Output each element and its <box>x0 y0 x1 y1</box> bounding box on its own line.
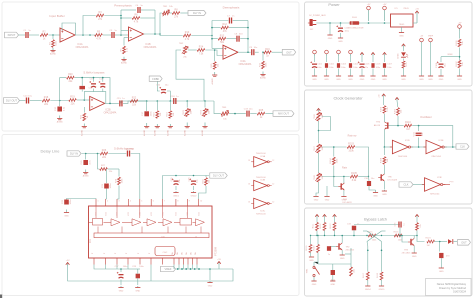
wire r26 to c24 <box>108 153 126 155</box>
svg-text:2.2k: 2.2k <box>127 47 129 52</box>
svg-text:R119: R119 <box>306 245 308 251</box>
capacitor C35x <box>398 222 401 228</box>
wire port to r <box>82 153 100 155</box>
svg-text:TM6: TM6 <box>314 114 316 119</box>
label TM5 <box>222 107 228 120</box>
wire TM2 to R14 <box>188 49 197 51</box>
wire wet return <box>176 50 204 101</box>
wire c21 pin <box>105 189 108 200</box>
label pendant +5V <box>420 36 424 38</box>
resistor R21v <box>81 113 89 121</box>
svg-text:1k: 1k <box>87 115 89 118</box>
wire c109 gnd <box>440 69 442 76</box>
svg-text:VCO: VCO <box>162 212 164 216</box>
junction vref <box>459 56 461 58</box>
svg-text:100n: 100n <box>70 199 72 205</box>
capacitor C31 <box>414 132 425 137</box>
svg-text:+5V: +5V <box>217 259 221 261</box>
svg-text:50k: 50k <box>322 175 324 179</box>
svg-text:10u: 10u <box>28 95 32 97</box>
resistor R22i <box>130 97 138 107</box>
wire C104 top <box>350 56 352 62</box>
svg-text:10k: 10k <box>462 61 464 65</box>
svg-text:VREF: VREF <box>447 54 453 56</box>
junction osc b <box>418 125 420 127</box>
wire th6 emitter gnd <box>343 190 345 196</box>
svg-text:4.7n: 4.7n <box>89 160 91 165</box>
junction clk r104 <box>333 146 335 148</box>
svg-text:AGND: AGND <box>201 130 204 137</box>
svg-text:GND: GND <box>348 79 353 81</box>
junction latch x1 <box>366 235 367 236</box>
label Oscillator <box>420 115 432 119</box>
wire r29 bot <box>199 186 206 199</box>
svg-text:P: P <box>115 252 117 254</box>
svg-text:Preemphasis: Preemphasis <box>114 4 132 8</box>
capacitor C15 <box>117 98 126 106</box>
svg-text:AGND: AGND <box>183 130 186 137</box>
svg-text:102: 102 <box>422 132 424 136</box>
svg-text:R2: R2 <box>42 31 46 34</box>
svg-text:R28: R28 <box>115 178 117 183</box>
wire c31 lead <box>418 126 420 131</box>
ground GND below C27 <box>118 286 123 293</box>
svg-text:R22: R22 <box>132 97 137 100</box>
svg-text:OPA2134PA: OPA2134PA <box>239 63 252 66</box>
svg-text:10u: 10u <box>165 85 169 87</box>
wire C105 bot <box>361 69 363 76</box>
svg-text:GND1: GND1 <box>173 196 180 198</box>
label C11 <box>89 88 94 90</box>
wire th4 base <box>389 125 399 127</box>
ground GND below TM8 <box>313 197 318 202</box>
capacitor C10 <box>23 95 32 103</box>
label C107 <box>387 64 393 70</box>
svg-text:VREF: VREF <box>165 267 172 271</box>
resistor R25i <box>257 109 265 119</box>
LED1 <box>401 52 408 57</box>
svg-text:R24: R24 <box>167 112 169 117</box>
wire pendant +5V <box>421 43 423 76</box>
wire C103 top <box>338 56 340 62</box>
wire C11 stub up <box>81 78 83 86</box>
resistor R115 <box>368 234 376 237</box>
wire r113 bot <box>334 231 336 236</box>
svg-text:10u: 10u <box>249 108 253 110</box>
supply +5V osc1 <box>382 94 386 97</box>
frame clock-generator section <box>305 90 473 204</box>
wire up to send row <box>160 13 162 34</box>
junction deemp node in <box>211 35 213 37</box>
svg-text:GND: GND <box>119 291 124 293</box>
svg-text:4.7k: 4.7k <box>185 38 190 41</box>
label VREF net <box>447 54 453 56</box>
wire led to r100 <box>403 59 405 61</box>
wire r28 lead <box>118 169 120 177</box>
svg-text:IC3C: IC3C <box>260 211 265 213</box>
switch SW1 <box>307 262 320 281</box>
wire C105 top <box>361 56 363 62</box>
svg-text:C25: C25 <box>171 177 173 182</box>
wire TM3 drop <box>186 101 188 108</box>
wire r117 gnd <box>367 280 369 286</box>
resistor R110 <box>404 121 412 131</box>
wire c25 gnd lead <box>175 186 177 190</box>
transistor TH5 <box>378 174 384 181</box>
capacitor C109 <box>436 61 447 68</box>
resistor R18i <box>42 96 50 106</box>
wire C12 drop <box>59 101 61 107</box>
resistor R117 <box>366 272 369 280</box>
svg-text:100k: 100k <box>266 62 268 68</box>
svg-text:C16: C16 <box>156 85 161 87</box>
wire R1 lead <box>52 35 54 39</box>
ground AGND below TM4 <box>201 123 207 137</box>
junction row2 G <box>204 100 206 102</box>
wire level to C19 <box>229 113 246 115</box>
svg-text:R26: R26 <box>102 149 107 152</box>
svg-text:R8: R8 <box>174 9 178 12</box>
svg-text:R13: R13 <box>220 34 225 37</box>
frame bypass-latch section <box>305 208 473 296</box>
ground AGND below R23v <box>154 124 160 136</box>
resistor R24v <box>167 111 175 119</box>
label Bypass Latch <box>364 218 387 222</box>
supply arrow C105 <box>360 53 364 57</box>
wire r102 gnd <box>459 69 461 76</box>
svg-text:TM5: TM5 <box>222 107 227 109</box>
wire C102 top <box>326 56 328 62</box>
svg-text:GND: GND <box>401 79 406 81</box>
junction node at R1 top <box>52 34 54 36</box>
svg-text:R5: R5 <box>97 31 101 34</box>
capacitor C7 <box>227 15 235 23</box>
wire tm6 to tm7 <box>318 121 320 143</box>
resistor R14 <box>197 46 205 56</box>
resistor R112 <box>323 223 326 231</box>
capacitor C14 <box>99 81 106 87</box>
svg-text:FDBK: FDBK <box>152 77 159 81</box>
wire inv f out <box>443 184 450 186</box>
svg-text:GND: GND <box>439 79 444 81</box>
svg-text:IC3D: IC3D <box>405 140 410 142</box>
svg-text:100k: 100k <box>122 178 124 184</box>
svg-text:OPA2134PA: OPA2134PA <box>104 112 117 115</box>
junction deemp out <box>247 51 249 53</box>
capacitor C101 <box>310 61 317 67</box>
svg-text:R112: R112 <box>320 223 322 229</box>
ground AGND below R7 <box>121 57 128 65</box>
junction out latch <box>439 241 441 243</box>
svg-text:TH4: TH4 <box>376 122 381 124</box>
svg-text:GND: GND <box>64 216 69 218</box>
wire TM4 drop <box>204 101 206 108</box>
svg-text:GND: GND <box>412 256 417 258</box>
wire vcc rail bottom <box>68 266 233 281</box>
svg-text:D100: D100 <box>352 17 358 19</box>
wire IC2A out <box>238 51 251 53</box>
svg-text:VCO: VCO <box>96 212 98 216</box>
svg-text:Power: Power <box>328 2 340 7</box>
svg-text:16K: 16K <box>161 236 165 238</box>
ground GND below C30 <box>373 190 378 198</box>
svg-text:C21: C21 <box>102 183 104 188</box>
svg-text:27k: 27k <box>98 18 103 21</box>
trimpot TM6 <box>314 112 324 121</box>
capacitor C102 <box>325 63 328 68</box>
supply +5V right of IC <box>217 259 221 265</box>
resistor R116 <box>394 234 402 237</box>
svg-text:470p: 470p <box>129 148 135 150</box>
svg-text:4.7k: 4.7k <box>134 21 139 24</box>
svg-text:PT2399: PT2399 <box>214 246 218 256</box>
wire R13 row l <box>212 38 218 40</box>
wire inv out <box>445 146 457 148</box>
ground GND below C106 <box>370 76 375 82</box>
svg-text:3.3n: 3.3n <box>63 106 65 111</box>
svg-text:C11: C11 <box>89 88 94 90</box>
resistor R118 <box>380 272 383 280</box>
junction dl B <box>97 153 99 155</box>
ground GND below R118 <box>379 286 386 292</box>
svg-text:AGND: AGND <box>143 130 146 137</box>
ground GND below R102 <box>457 76 462 82</box>
ground GND below TH5 <box>382 190 387 196</box>
junction out div <box>262 51 264 53</box>
svg-text:9: 9 <box>189 201 190 203</box>
svg-text:1k: 1k <box>266 55 269 58</box>
junction bottom pin 4 <box>194 268 196 270</box>
wire C14 stub up <box>102 78 104 82</box>
wire r121m top <box>350 248 352 267</box>
svg-text:C22: C22 <box>62 199 64 204</box>
supply rail cap C102 <box>325 50 329 56</box>
ground GND below TH7 <box>412 253 417 259</box>
IC U1 top pins <box>96 199 202 206</box>
resistor R23v <box>154 111 162 119</box>
wire R23 drop <box>156 101 158 110</box>
resistor R27 <box>100 168 108 171</box>
svg-text:P: P <box>138 252 140 254</box>
junction C13 top <box>93 77 95 79</box>
junction osc a <box>397 125 399 127</box>
junction bottom pin 0 <box>177 268 179 270</box>
svg-text:C33: C33 <box>347 224 352 226</box>
junction L-C4 <box>120 17 122 19</box>
svg-text:2SC1815: 2SC1815 <box>346 250 356 252</box>
svg-text:R23: R23 <box>154 112 156 117</box>
wire c36 gnd <box>440 258 442 267</box>
svg-text:CLK: CLK <box>460 145 465 149</box>
wire R19 to opamp <box>77 99 90 101</box>
wire pin drop long <box>150 265 152 282</box>
svg-text:IC4: IC4 <box>90 239 92 243</box>
supply +5V latch 324.5 <box>323 215 327 218</box>
resistor R119 <box>309 245 312 253</box>
svg-text:100n: 100n <box>353 67 357 69</box>
ground GND below C109 <box>438 76 443 82</box>
svg-text:C105: C105 <box>365 64 371 66</box>
svg-text:INPUT: INPUT <box>8 33 16 37</box>
svg-text:4: 4 <box>130 201 131 203</box>
svg-text:6: 6 <box>153 201 154 203</box>
svg-text:7.5k: 7.5k <box>199 53 204 56</box>
svg-text:MIX OUT: MIX OUT <box>278 112 289 116</box>
svg-text:GND: GND <box>314 200 319 202</box>
svg-text:R110: R110 <box>405 121 411 124</box>
svg-text:10u: 10u <box>197 178 199 182</box>
label TM1 <box>163 6 174 8</box>
wire th8 base <box>330 246 336 248</box>
port CLK IN <box>399 182 413 187</box>
wire bottom pin drop 174 <box>173 265 175 270</box>
ground GND below C25 <box>173 191 180 198</box>
svg-text:100u: 100u <box>345 31 349 33</box>
svg-text:DA: DA <box>190 252 193 255</box>
svg-text:+5V: +5V <box>379 94 381 98</box>
wire th7 collector <box>413 236 415 239</box>
svg-text:R20: R20 <box>68 73 73 76</box>
svg-text:R117: R117 <box>363 272 365 278</box>
label Input Buffer <box>49 14 64 18</box>
wire c26 gnd lead <box>193 186 195 190</box>
resistor R20fb <box>67 73 75 83</box>
junction pwr d <box>384 22 386 24</box>
svg-text:22k: 22k <box>44 103 49 106</box>
svg-text:CLK: CLK <box>403 183 408 187</box>
wire c36 drop <box>439 242 441 252</box>
svg-text:+9V: +9V <box>383 4 387 6</box>
op-amp IC2A <box>223 45 252 66</box>
svg-text:+9V: +9V <box>367 4 371 6</box>
svg-text:R14: R14 <box>199 46 204 49</box>
wire bottom pin drop 192.5 <box>192 265 194 270</box>
label C34 <box>331 280 335 282</box>
wire bottom pin drop 179 <box>178 265 180 270</box>
ground GND below C104 <box>348 76 353 82</box>
svg-text:OSC: OSC <box>163 252 168 254</box>
svg-text:74HCU04: 74HCU04 <box>431 156 441 158</box>
ground GND below C100 <box>338 38 343 44</box>
svg-text:DLY IN: DLY IN <box>193 11 201 15</box>
ground GND below R119 <box>309 257 314 263</box>
svg-text:VCO: VCO <box>187 212 189 216</box>
svg-text:OPA2134PA: OPA2134PA <box>144 46 157 49</box>
wire r112 bot <box>324 231 326 236</box>
svg-text:GND5: GND5 <box>379 289 386 291</box>
svg-text:22k: 22k <box>68 80 73 83</box>
svg-text:13: 13 <box>248 160 250 162</box>
wire gnd drop right <box>209 269 211 280</box>
jack J1 INPUT <box>5 32 19 38</box>
svg-text:1u: 1u <box>328 254 330 256</box>
junction rail r111 <box>316 235 317 236</box>
svg-text:R10: R10 <box>185 31 190 34</box>
svg-text:DA: DA <box>185 252 188 255</box>
wire C107 top <box>384 56 386 62</box>
junction clk a <box>318 130 320 132</box>
svg-text:GND: GND <box>399 36 404 38</box>
supply arrow C106 <box>371 53 375 57</box>
frame delay-line section <box>2 135 299 296</box>
ground AGND below R1 <box>50 48 57 56</box>
trimpot TM1 <box>163 10 170 16</box>
wire r119 top <box>310 236 312 245</box>
label C104 <box>353 64 359 70</box>
wire inv stub IC2A <box>212 48 223 50</box>
junction L-R12 <box>211 27 213 29</box>
wire R5 to C3 <box>103 34 111 36</box>
svg-text:AGND: AGND <box>211 78 214 85</box>
wire deemp node L vertical <box>211 21 213 49</box>
junction rail r119 <box>310 235 311 236</box>
junction R-R12 <box>247 27 249 29</box>
resistor R123 <box>427 240 435 243</box>
svg-text:R101: R101 <box>456 40 458 46</box>
wire led top <box>403 48 405 52</box>
svg-text:C3: C3 <box>109 30 113 32</box>
wire C13 stub <box>93 89 95 92</box>
svg-text:50k: 50k <box>322 146 324 150</box>
wire x down right <box>381 242 383 272</box>
capacitor C4 <box>135 5 143 13</box>
supply pendant +5V <box>420 38 424 43</box>
capacitor C21 <box>102 183 112 189</box>
resistor R10 <box>183 31 191 41</box>
svg-text:R29: R29 <box>202 179 204 184</box>
junction row2 F <box>186 100 188 102</box>
svg-text:VCO: VCO <box>176 212 178 216</box>
capacitor C9 <box>249 47 258 55</box>
svg-text:TH2: TH2 <box>346 247 351 249</box>
label C33 <box>347 224 359 226</box>
label R116 <box>394 231 404 241</box>
svg-text:GND: GND <box>324 79 329 81</box>
label R27 <box>101 165 113 173</box>
resistor R28 <box>115 177 123 185</box>
svg-text:IC3A: IC3A <box>260 155 265 158</box>
jack OUT latch <box>458 240 471 246</box>
label C26 <box>189 177 199 183</box>
wire R8 to port <box>180 12 190 14</box>
wire R12 row r <box>229 27 248 29</box>
port CLK OUT <box>456 144 469 149</box>
wire diode to reg <box>359 22 390 24</box>
svg-text:GND: GND <box>312 284 317 286</box>
svg-text:1n: 1n <box>357 224 359 226</box>
wire r106 to th4 <box>383 114 385 122</box>
resistor R3 <box>96 11 104 21</box>
svg-text:C28: C28 <box>132 266 137 268</box>
resistor R13 <box>218 34 226 44</box>
svg-text:VREF: VREF <box>428 36 434 38</box>
svg-text:R105: R105 <box>351 172 357 175</box>
svg-text:100n: 100n <box>150 111 152 117</box>
resistor R17v <box>259 61 267 69</box>
junction r122p <box>416 235 418 237</box>
capacitor C26 <box>189 178 196 184</box>
wire gnd stubs clock2 <box>326 186 328 197</box>
svg-text:VCO: VCO <box>198 212 200 216</box>
wire C104 bot <box>350 69 352 76</box>
capacitor C100 <box>336 25 343 31</box>
svg-text:10k: 10k <box>401 109 403 113</box>
svg-text:R120: R120 <box>314 245 316 251</box>
svg-text:5.6kHz lowpass: 5.6kHz lowpass <box>83 71 105 75</box>
wire tm8 wiper row <box>322 176 350 178</box>
svg-text:Clock Generator: Clock Generator <box>333 96 363 101</box>
junction C14 top <box>102 77 104 79</box>
